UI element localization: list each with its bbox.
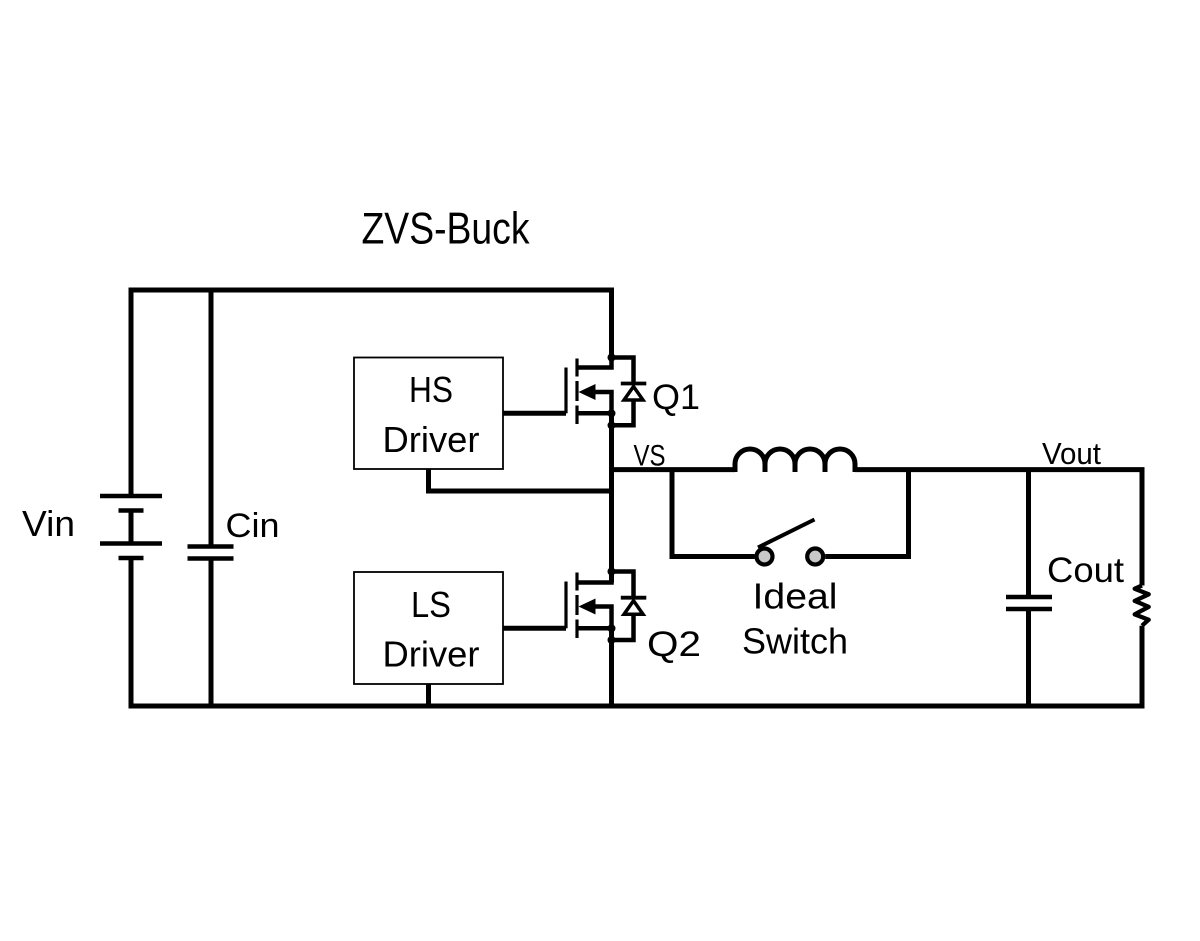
wire: resistor bottom lead bbox=[1140, 626, 1145, 706]
body arrow bbox=[592, 392, 612, 413]
wire: HS driver return to VS bbox=[429, 469, 612, 491]
channel segments bbox=[575, 573, 578, 591]
body arrow bbox=[592, 607, 612, 629]
wire: switch left branch bbox=[672, 470, 755, 557]
drain connection bbox=[577, 570, 612, 583]
wire: battery bottom lead bbox=[129, 558, 134, 706]
HS Driver box U1 bbox=[354, 358, 503, 470]
body diode D2 bbox=[612, 572, 647, 641]
source connection bbox=[577, 626, 612, 631]
svg-text:Cin: Cin bbox=[226, 507, 280, 545]
switch lever bbox=[758, 520, 815, 548]
source connection bbox=[577, 411, 612, 416]
svg-text:HS: HS bbox=[409, 369, 453, 410]
switch throw contact bbox=[807, 549, 823, 565]
svg-text:Vin: Vin bbox=[22, 503, 75, 544]
svg-text:LS: LS bbox=[411, 584, 451, 625]
node dots Q2 bbox=[608, 568, 616, 576]
capacitor Cout bbox=[1006, 470, 1052, 706]
wire: switch right branch bbox=[825, 470, 908, 557]
transistor Q1 (N-MOSFET with body diode) bbox=[566, 355, 612, 424]
svg-text:Q1: Q1 bbox=[652, 377, 700, 417]
svg-text:Driver: Driver bbox=[383, 634, 480, 675]
svg-text:Switch: Switch bbox=[742, 620, 848, 661]
gate bar bbox=[564, 368, 567, 414]
channel segments bbox=[575, 359, 578, 377]
svg-text:Ideal: Ideal bbox=[753, 575, 838, 616]
wire: inductor output to Vout rail and down right side bbox=[855, 470, 1142, 586]
capacitor Cin bbox=[188, 290, 234, 706]
svg-text:ZVS-Buck: ZVS-Buck bbox=[362, 205, 531, 254]
wire: bottom rail bbox=[129, 704, 1145, 709]
gate bar bbox=[564, 582, 567, 629]
svg-text:Q2: Q2 bbox=[647, 624, 701, 664]
body diode D1 bbox=[612, 358, 647, 426]
drain connection bbox=[577, 355, 612, 368]
node dots Q1 bbox=[608, 354, 616, 362]
svg-text:Driver: Driver bbox=[383, 419, 480, 460]
wire: Q1 source down through VS to Q2 drain bbox=[609, 413, 614, 582]
wire: VS horizontal to inductor bbox=[612, 467, 736, 472]
svg-text:Cout: Cout bbox=[1047, 551, 1124, 590]
transistor Q2 (N-MOSFET with body diode) bbox=[566, 570, 612, 638]
resistor R1 (load) bbox=[1135, 586, 1149, 626]
inductor L1 bbox=[735, 449, 855, 472]
battery Vin bbox=[100, 496, 162, 558]
switch pivot contact bbox=[757, 549, 773, 565]
wire: LS driver gate lead bbox=[503, 626, 566, 631]
LS Driver box U2 bbox=[354, 572, 503, 684]
wire: LS driver return to bottom rail bbox=[426, 684, 431, 706]
wire: top rail (left vertical up, top horizontal, drop to Q1 drain) bbox=[131, 290, 612, 496]
svg-text:Vout: Vout bbox=[1042, 437, 1102, 471]
wire: Q2 source to bottom rail bbox=[609, 628, 614, 706]
wire: HS driver gate lead bbox=[503, 411, 566, 416]
